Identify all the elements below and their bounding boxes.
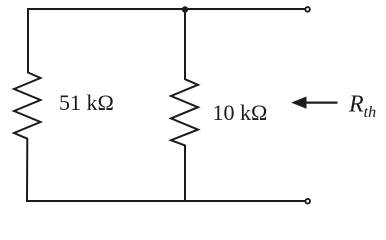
svg-text:10 kΩ: 10 kΩ — [213, 100, 268, 125]
svg-text:51 kΩ: 51 kΩ — [59, 90, 114, 115]
